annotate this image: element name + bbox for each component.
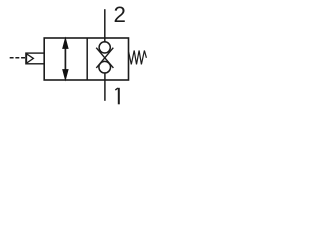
check ball lower [99, 61, 111, 73]
section divider [86, 38, 88, 80]
check ball upper [99, 42, 110, 53]
valve body envelope [44, 38, 128, 80]
pilot line (dashed) [10, 57, 26, 59]
seat line B [96, 48, 113, 68]
pilot triangle [27, 54, 34, 63]
arrowhead down [63, 70, 69, 81]
svg-text:2: 2 [114, 2, 126, 27]
arrowhead up [63, 38, 69, 49]
spring [129, 51, 147, 65]
port 1 line [104, 72, 106, 100]
pilot piston box [26, 53, 44, 64]
piston stroke arrow shaft [64, 44, 66, 74]
port 1 label [115, 88, 119, 105]
port 2 line [104, 9, 106, 42]
seat line A [96, 48, 113, 68]
